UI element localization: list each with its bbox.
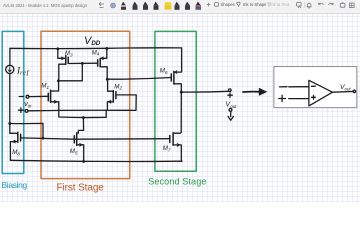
- svg-text:vin: vin: [24, 99, 32, 108]
- svg-text:M7: M7: [163, 145, 171, 152]
- toolbar bell icon: [307, 3, 311, 8]
- junction dot mirror gate: [81, 62, 84, 65]
- op-amp U1: [279, 80, 356, 106]
- junction dot diode to gate line: [42, 137, 45, 140]
- toolbar redo icon: [328, 3, 333, 5]
- port Vout: [228, 89, 233, 111]
- transistor M4: [98, 49, 108, 80]
- junction dot output node: [180, 91, 183, 94]
- region box Second Stage: [155, 31, 196, 171]
- region box First Stage: [41, 31, 130, 178]
- wire vin- to M1 gate: [29, 95, 48, 97]
- wire gate bias line (M8-M5-M7 gates): [21, 138, 170, 139]
- junction dot M1-M3 drain: [57, 79, 60, 82]
- arrow to block diagram: [243, 91, 260, 93]
- svg-text:M8: M8: [12, 149, 20, 156]
- toolbar icon undo-pan: [99, 2, 104, 7]
- wire first stage output to M6 gate: [107, 78, 171, 80]
- wire vin+ to M2 gate: [28, 95, 136, 111]
- toolbar ink to shape icon: [237, 2, 241, 6]
- wire tail node: [59, 102, 106, 118]
- junction dot M3 source: [56, 47, 59, 50]
- port vin-: [19, 95, 29, 98]
- toolbar pen black 5: [175, 2, 179, 6]
- toolbar shapes button icon: [215, 3, 219, 7]
- toolbar pen galaxy: [196, 2, 201, 6]
- toolbar ink to text icon: [267, 3, 271, 7]
- junction dot M8 drain node: [8, 122, 11, 125]
- current source Iref: [6, 65, 14, 73]
- toolbar present icon: [297, 3, 302, 6]
- toolbar pen black 1: [121, 2, 125, 6]
- wire output node to M7 drain: [180, 92, 182, 132]
- toolbar icon select: [111, 3, 116, 8]
- svg-text:M2: M2: [114, 83, 122, 90]
- toolbar share icon: [340, 3, 345, 7]
- transistor M1: [48, 81, 59, 103]
- toolbar pen black 4: [154, 2, 158, 6]
- wire mirror gate to drain node: [58, 63, 82, 80]
- transistor M6: [171, 71, 181, 92]
- toolbar pen black 2: [133, 2, 137, 6]
- svg-text:M4: M4: [92, 50, 100, 56]
- toolbar plus: [207, 3, 210, 6]
- toolbar pen black 3: [143, 2, 147, 6]
- wire output node to port: [181, 90, 228, 93]
- svg-text:M6: M6: [160, 68, 168, 75]
- svg-text:Second Stage: Second Stage: [148, 176, 206, 186]
- svg-text:M5: M5: [70, 148, 78, 155]
- toolbar pen highlighter yellow: [165, 2, 172, 5]
- wire M8 diode connection: [10, 123, 43, 138]
- svg-text:Vout: Vout: [225, 101, 237, 108]
- junction dot M2-M4 drain: [106, 78, 109, 81]
- junction dot M5 source: [82, 160, 85, 163]
- transistor M2: [107, 79, 116, 110]
- transistor M5: [74, 133, 83, 162]
- op-amp block box: [274, 67, 357, 108]
- svg-text:M3: M3: [65, 51, 73, 57]
- svg-text:VDD: VDD: [84, 35, 101, 47]
- wire tail to M5 drain: [78, 118, 83, 133]
- port vin+: [19, 108, 28, 113]
- toolbar pen black 6: [185, 2, 189, 6]
- region box Biasing: [2, 31, 24, 173]
- svg-text:First Stage: First Stage: [57, 183, 105, 194]
- svg-text:Iref: Iref: [16, 67, 30, 77]
- transistor M8: [10, 124, 21, 161]
- svg-text:M1: M1: [41, 83, 49, 90]
- wire VDD rail: [10, 48, 182, 72]
- toolbar separator: [304, 3, 306, 9]
- transistor M3: [58, 49, 68, 81]
- wire Iref to M8 drain: [9, 74, 11, 124]
- junction dot tail to M5: [82, 116, 85, 119]
- toolbar undo icon: [319, 3, 324, 5]
- toolbar grid icon: [350, 3, 355, 8]
- wire VSS rail: [10, 160, 182, 161]
- ground arrow: [228, 111, 233, 120]
- junction dot M4 source: [105, 47, 108, 50]
- transistor M7: [170, 132, 182, 161]
- wire mirror gate M3-M4: [68, 62, 98, 64]
- svg-text:Biasing: Biasing: [2, 180, 28, 190]
